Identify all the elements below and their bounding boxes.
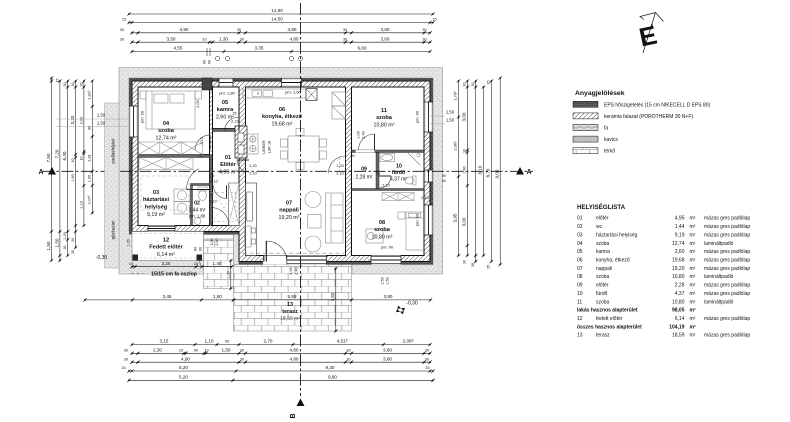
svg-text:11: 11 xyxy=(577,299,582,305)
sofa in living room xyxy=(326,193,344,243)
svg-text:09: 09 xyxy=(361,167,367,173)
svg-text:HELYISÉGLISTA: HELYISÉGLISTA xyxy=(577,203,626,211)
svg-text:pm: 1,80: pm: 1,80 xyxy=(219,91,235,96)
kitchen tall cabinets fridge xyxy=(332,92,346,119)
svg-text:kerámia falazat (POROTHERM 30: kerámia falazat (POROTHERM 30 N+F) xyxy=(604,114,693,120)
svg-text:19,20: 19,20 xyxy=(672,266,685,272)
gravel strip around building (kavics) xyxy=(119,68,443,275)
bottom dim row 5,20 9,60 xyxy=(127,375,434,383)
covered porch outline (fedett eloter) xyxy=(132,232,204,261)
svg-text:m²: m² xyxy=(690,291,696,297)
svg-text:75: 75 xyxy=(232,112,236,116)
LIEBER LSK 18 label xyxy=(262,140,272,154)
top dim row 14,80 xyxy=(127,8,434,16)
right dim col 5 xyxy=(486,79,494,269)
svg-text:30: 30 xyxy=(240,357,244,361)
svg-text:terasz: terasz xyxy=(282,309,298,315)
svg-text:3,45: 3,45 xyxy=(163,294,172,299)
bottom dim row rooms xyxy=(124,356,432,364)
svg-text:15: 15 xyxy=(122,18,126,22)
washing machines in room 03 xyxy=(174,189,190,214)
svg-text:30: 30 xyxy=(346,349,350,353)
svg-text:gázkazán: gázkazán xyxy=(111,220,116,239)
svg-text:térkő: térkő xyxy=(604,149,615,155)
right dim col 3 xyxy=(471,79,478,267)
svg-text:90: 90 xyxy=(442,174,446,178)
svg-text:30: 30 xyxy=(463,83,467,87)
svg-text:11: 11 xyxy=(381,108,387,114)
svg-text:fürdő: fürdő xyxy=(596,291,608,297)
right dim col 2 xyxy=(462,79,470,264)
svg-text:LSK 18: LSK 18 xyxy=(268,141,272,153)
svg-text:lamináltpadló: lamináltpadló xyxy=(704,241,734,247)
svg-text:60: 60 xyxy=(194,247,198,251)
svg-text:60: 60 xyxy=(208,60,212,64)
dining table with chairs xyxy=(281,129,327,170)
north arrow xyxy=(636,13,663,54)
top dim row rooms 4,90 4,80 3,60 xyxy=(120,27,432,35)
svg-text:9,19: 9,19 xyxy=(675,232,685,238)
svg-text:08: 08 xyxy=(379,220,385,226)
svg-text:pm: 1,60: pm: 1,60 xyxy=(285,90,301,95)
gazkazan label xyxy=(111,220,116,239)
svg-text:2,30: 2,30 xyxy=(153,348,162,353)
svg-text:mázas gres padlólap: mázas gres padlólap xyxy=(704,232,750,238)
svg-text:12: 12 xyxy=(163,238,169,244)
svg-text:1,00: 1,00 xyxy=(226,271,230,278)
svg-text:mázas gres padlólap: mázas gres padlólap xyxy=(704,316,750,322)
svg-text:18,59: 18,59 xyxy=(672,333,685,339)
svg-text:EPS hőszigetelés (15 cm NIKECE: EPS hőszigetelés (15 cm NIKECELL D EPS 8… xyxy=(604,102,711,108)
svg-text:30: 30 xyxy=(120,37,124,41)
svg-text:Előtér: Előtér xyxy=(220,162,237,168)
svg-text:m²: m² xyxy=(690,308,696,314)
svg-text:nappali: nappali xyxy=(596,266,612,272)
window W9 utility room in porch wall xyxy=(148,226,175,232)
svg-text:30: 30 xyxy=(71,238,75,242)
svg-text:15: 15 xyxy=(432,18,436,22)
wardrobe in room 08 xyxy=(382,193,414,201)
svg-text:1,26: 1,26 xyxy=(127,239,131,246)
svg-text:szoba: szoba xyxy=(596,241,610,247)
svg-text:3,35: 3,35 xyxy=(255,46,264,51)
legend swatch wood xyxy=(573,125,608,132)
legend swatch paving xyxy=(573,148,615,155)
svg-text:10: 10 xyxy=(79,157,83,161)
svg-text:30: 30 xyxy=(240,349,244,353)
room 07 nappali label xyxy=(279,201,300,222)
svg-text:A: A xyxy=(38,169,43,176)
svg-text:30: 30 xyxy=(237,28,241,32)
svg-text:6,60: 6,60 xyxy=(358,46,367,51)
svg-text:pm: 90: pm: 90 xyxy=(381,245,394,250)
partition wall above room 08 xyxy=(352,189,425,191)
svg-text:2,10: 2,10 xyxy=(231,120,238,124)
room 11 szoba label xyxy=(374,108,395,129)
svg-text:1,50: 1,50 xyxy=(54,238,59,247)
svg-text:2,40: 2,40 xyxy=(215,239,219,246)
svg-text:10,80 m²: 10,80 m² xyxy=(372,235,393,241)
bottom dim row 15 5,20 9,30 15 xyxy=(121,365,434,373)
right dim col 1 xyxy=(453,79,461,257)
svg-text:1,50: 1,50 xyxy=(386,277,390,284)
svg-text:10: 10 xyxy=(71,159,75,163)
svg-text:10: 10 xyxy=(199,154,203,158)
window W8 living room fixed glazing in bottom wall xyxy=(287,256,327,265)
svg-text:1,50: 1,50 xyxy=(222,348,231,353)
svg-text:12: 12 xyxy=(577,316,583,322)
svg-text:pm: 90: pm: 90 xyxy=(415,110,420,123)
svg-text:1,00: 1,00 xyxy=(357,131,361,138)
svg-text:09: 09 xyxy=(577,283,583,289)
svg-text:10,80: 10,80 xyxy=(672,274,685,280)
svg-text:A: A xyxy=(526,169,531,176)
svg-text:30: 30 xyxy=(63,246,67,250)
dashed opening jambs konyha xyxy=(239,158,346,171)
svg-text:1,50: 1,50 xyxy=(46,241,51,250)
porch timber column left 15/15 xyxy=(133,255,139,261)
svg-text:mázas gres padlólap: mázas gres padlólap xyxy=(704,216,750,222)
svg-text:2,00: 2,00 xyxy=(196,100,200,107)
window W2 kamra in top wall xyxy=(219,78,233,87)
svg-text:06: 06 xyxy=(279,107,285,113)
svg-text:3,20: 3,20 xyxy=(162,261,171,266)
svg-text:szoba: szoba xyxy=(158,128,175,134)
top dim row detailed xyxy=(120,36,432,44)
svg-text:1,10: 1,10 xyxy=(200,137,204,144)
window dim labels right 1,50 1,50 xyxy=(428,110,455,124)
exterior load-bearing walls (POROTHERM) xyxy=(132,81,430,262)
svg-text:4,55: 4,55 xyxy=(174,46,183,51)
right dim col 4 xyxy=(478,85,486,257)
svg-text:15: 15 xyxy=(487,81,491,85)
room 10 furdo label xyxy=(390,164,407,183)
bottom dim row 3,45 1,60 5,55 3,90 xyxy=(83,294,432,302)
svg-text:pm: 90: pm: 90 xyxy=(140,110,145,123)
svg-text:3,95: 3,95 xyxy=(453,213,458,222)
closet strip below room 04 xyxy=(139,158,193,170)
section line A-A xyxy=(42,170,533,172)
svg-text:30: 30 xyxy=(124,349,128,353)
svg-text:90: 90 xyxy=(350,154,354,158)
door wc xyxy=(213,186,226,199)
svg-text:1,60: 1,60 xyxy=(213,294,222,299)
svg-text:19,68 m²: 19,68 m² xyxy=(272,122,293,128)
svg-text:wc: wc xyxy=(596,224,603,230)
attic access dashed rectangle in hall xyxy=(212,193,236,222)
svg-text:6,14 m²: 6,14 m² xyxy=(157,252,175,258)
svg-text:háztartási: háztartási xyxy=(143,197,170,203)
svg-text:9,19 m²: 9,19 m² xyxy=(147,212,165,218)
entry dims 60 60 columns xyxy=(194,239,220,252)
svg-text:15: 15 xyxy=(194,262,198,266)
door room 11 xyxy=(359,134,375,150)
window dim labels left 1,50 1,50 xyxy=(56,113,129,127)
svg-text:13: 13 xyxy=(287,302,293,308)
svg-text:fedett előtér: fedett előtér xyxy=(596,316,623,322)
svg-text:Anyagjelölések: Anyagjelölések xyxy=(575,90,625,97)
bottom dim row porch 15 3,20 15 1,40 xyxy=(129,261,233,269)
svg-text:2,10: 2,10 xyxy=(382,184,389,188)
svg-text:2,60: 2,60 xyxy=(675,249,685,255)
svg-text:30: 30 xyxy=(120,28,124,32)
svg-text:10: 10 xyxy=(204,349,208,353)
svg-text:02: 02 xyxy=(194,201,200,207)
svg-text:10,80 m²: 10,80 m² xyxy=(374,123,395,129)
bottom dim row openings xyxy=(130,339,431,347)
svg-text:30: 30 xyxy=(63,83,67,87)
svg-text:07: 07 xyxy=(577,266,583,272)
room 09 eloter label xyxy=(356,167,373,181)
svg-text:4,95 m²: 4,95 m² xyxy=(219,170,237,176)
svg-text:mázas gres padlólap: mázas gres padlólap xyxy=(704,258,750,264)
svg-text:mázas gres padlólap: mázas gres padlólap xyxy=(704,249,750,255)
kitchen stove block xyxy=(306,89,317,101)
svg-text:15: 15 xyxy=(121,366,125,370)
hall closet and living-room wall unit xyxy=(229,183,257,256)
svg-text:19,20 m²: 19,20 m² xyxy=(279,215,300,221)
svg-text:1,20: 1,20 xyxy=(249,164,256,168)
svg-text:1,785: 1,785 xyxy=(453,91,458,101)
svg-text:10,80: 10,80 xyxy=(672,299,685,305)
svg-text:mázas gres padlólap: mázas gres padlólap xyxy=(704,266,750,272)
svg-text:lamináltpadló: lamináltpadló xyxy=(704,299,734,305)
svg-text:2,10: 2,10 xyxy=(421,196,428,200)
svg-text:60: 60 xyxy=(203,60,207,64)
svg-text:15: 15 xyxy=(487,265,491,269)
svg-text:30: 30 xyxy=(343,28,347,32)
room 05 kamra label xyxy=(216,100,234,121)
svg-text:3,15: 3,15 xyxy=(160,339,169,344)
svg-text:4,95: 4,95 xyxy=(675,216,685,222)
svg-text:30: 30 xyxy=(343,37,347,41)
svg-text:07: 07 xyxy=(286,201,292,207)
svg-text:3,00: 3,00 xyxy=(289,267,293,274)
door hall to utility room 03 xyxy=(187,169,211,190)
svg-text:2,40: 2,40 xyxy=(295,267,299,274)
svg-text:03: 03 xyxy=(153,190,159,196)
svg-text:1,40: 1,40 xyxy=(213,261,222,266)
svg-text:8,10: 8,10 xyxy=(478,165,483,174)
svg-text:30: 30 xyxy=(71,250,75,254)
svg-text:összes hasznos alapterület: összes hasznos alapterület xyxy=(577,324,642,330)
entrance door to hall xyxy=(211,208,229,226)
svg-text:75: 75 xyxy=(376,172,380,176)
svg-text:30: 30 xyxy=(471,83,475,87)
svg-text:2,70: 2,70 xyxy=(264,339,273,344)
svg-text:1,915: 1,915 xyxy=(87,90,92,100)
svg-text:4,37: 4,37 xyxy=(675,291,685,297)
svg-text:1,10: 1,10 xyxy=(79,201,83,208)
west side pad (attic stair strip) xyxy=(105,103,120,268)
svg-text:fa: fa xyxy=(604,126,608,132)
svg-text:12,74 m²: 12,74 m² xyxy=(156,136,177,142)
svg-text:2,81: 2,81 xyxy=(87,154,92,162)
svg-text:2,28 m²: 2,28 m² xyxy=(356,175,373,181)
svg-text:m²: m² xyxy=(690,274,696,280)
svg-text:mázas gres padlólap: mázas gres padlólap xyxy=(704,333,750,339)
window W3 kitchen in top wall xyxy=(282,78,302,87)
svg-text:5,20: 5,20 xyxy=(179,365,188,370)
door room 04 to hall xyxy=(195,135,210,150)
terrace paving (terko) xyxy=(234,265,352,332)
dashed attic outline in room 03 xyxy=(141,176,189,210)
svg-text:7,50: 7,50 xyxy=(46,153,51,162)
svg-text:m²: m² xyxy=(690,266,696,272)
bed in room 04 xyxy=(140,91,202,129)
room 13 terasz label xyxy=(280,302,300,322)
svg-text:szoba: szoba xyxy=(376,115,393,121)
svg-text:3,60: 3,60 xyxy=(381,36,390,41)
svg-text:10: 10 xyxy=(202,37,206,41)
svg-text:30: 30 xyxy=(425,357,429,361)
svg-text:10: 10 xyxy=(577,291,583,297)
svg-text:m²: m² xyxy=(690,249,696,255)
svg-text:lamináltpadló: lamináltpadló xyxy=(704,274,734,280)
svg-text:2,965: 2,965 xyxy=(453,141,458,151)
svg-text:E: E xyxy=(636,20,659,53)
svg-text:05: 05 xyxy=(222,100,228,106)
EPS insulation layer around walls xyxy=(129,78,433,265)
section marker A right xyxy=(516,167,532,176)
svg-text:Fedett előtér: Fedett előtér xyxy=(149,245,183,251)
svg-text:30: 30 xyxy=(422,37,426,41)
left dim col 2 xyxy=(54,79,61,263)
room 01 eloter label xyxy=(219,155,237,176)
legend swatch gravel xyxy=(573,136,618,143)
washbasin in bathroom 10 xyxy=(380,154,395,162)
svg-text:104,19: 104,19 xyxy=(669,324,685,330)
svg-text:pm: 1,80: pm: 1,80 xyxy=(189,214,206,219)
window W6 room 08 in right wall xyxy=(424,205,433,235)
svg-text:01: 01 xyxy=(577,216,583,222)
svg-text:szoba: szoba xyxy=(596,274,610,280)
svg-text:1,44: 1,44 xyxy=(675,224,685,230)
window W7 room 08 in bottom wall xyxy=(371,256,401,265)
svg-text:4,80: 4,80 xyxy=(290,348,299,353)
svg-text:1,20: 1,20 xyxy=(336,164,343,168)
svg-text:szoba: szoba xyxy=(374,227,391,233)
door size labels interior xyxy=(196,100,429,284)
svg-text:5,20: 5,20 xyxy=(179,375,188,380)
svg-text:30: 30 xyxy=(79,83,83,87)
svg-text:3,00: 3,00 xyxy=(462,217,467,226)
partition wall kamra south xyxy=(213,129,240,132)
armchairs and coffee table in living room xyxy=(305,192,321,253)
svg-text:konyha, étkező: konyha, étkező xyxy=(596,258,630,264)
svg-text:fürdő: fürdő xyxy=(392,170,405,176)
svg-text:9,30: 9,30 xyxy=(326,365,335,370)
svg-text:75: 75 xyxy=(209,194,213,198)
wc toilet and basin xyxy=(194,187,207,224)
pm labels windows xyxy=(140,90,420,250)
svg-text:m²: m² xyxy=(690,216,696,222)
svg-text:konyha, étkező: konyha, étkező xyxy=(262,114,303,120)
svg-text:10: 10 xyxy=(463,149,467,153)
door hall 09 to living room xyxy=(329,156,346,173)
porch timber column right 15/15 xyxy=(197,255,203,261)
svg-text:3,50: 3,50 xyxy=(167,36,176,41)
svg-text:2,475: 2,475 xyxy=(87,195,92,205)
svg-text:mázas gres padlólap: mázas gres padlólap xyxy=(704,224,750,230)
svg-text:7,20: 7,20 xyxy=(54,149,59,158)
svg-text:12,74: 12,74 xyxy=(672,241,685,247)
svg-text:-0,30: -0,30 xyxy=(406,301,418,307)
svg-text:mázas gres padlólap: mázas gres padlólap xyxy=(704,291,750,297)
svg-text:95: 95 xyxy=(225,340,229,344)
partition wall between room 04 and closet strip xyxy=(138,155,210,158)
svg-text:háztartási helyiség: háztartási helyiség xyxy=(596,232,638,238)
legend swatch EPS xyxy=(573,101,711,108)
svg-text:9,00: 9,00 xyxy=(494,169,499,178)
svg-text:6,14: 6,14 xyxy=(675,316,685,322)
svg-text:3,00: 3,00 xyxy=(462,112,467,121)
svg-text:2,10: 2,10 xyxy=(209,200,216,204)
svg-text:06: 06 xyxy=(577,258,583,264)
svg-text:nappali: nappali xyxy=(279,208,299,214)
svg-text:4,90: 4,90 xyxy=(181,356,190,361)
svg-text:98,05: 98,05 xyxy=(672,308,685,314)
svg-text:B: B xyxy=(290,413,297,418)
svg-text:1,50: 1,50 xyxy=(446,118,455,123)
left dim col 3 xyxy=(62,79,69,257)
svg-text:m²: m² xyxy=(690,299,696,305)
svg-text:előtér: előtér xyxy=(596,216,609,222)
padlasfeljaro label xyxy=(111,138,116,163)
svg-text:08: 08 xyxy=(577,274,583,280)
svg-text:1,50: 1,50 xyxy=(381,277,385,284)
column size labels 60 60 xyxy=(203,60,212,64)
svg-text:szoba: szoba xyxy=(596,299,610,305)
svg-text:2,10: 2,10 xyxy=(336,172,343,176)
top dim row 14,50 xyxy=(122,17,437,25)
svg-text:4,90: 4,90 xyxy=(180,27,189,32)
svg-text:padlásfeljáró: padlásfeljáró xyxy=(111,138,116,163)
svg-text:60: 60 xyxy=(199,247,203,251)
svg-text:mázas gres padlólap: mázas gres padlólap xyxy=(704,283,750,289)
svg-text:15: 15 xyxy=(129,262,133,266)
left dim col 1 xyxy=(46,76,53,262)
room list title HELYISEGLISTA xyxy=(577,203,626,211)
kitchen counter with sink xyxy=(243,89,306,98)
room 06 konyha label xyxy=(262,107,303,128)
svg-text:2,10: 2,10 xyxy=(249,172,256,176)
left dim col 4 xyxy=(70,79,77,254)
partition wall 11 to 09-10 xyxy=(352,150,425,153)
svg-text:előtér: előtér xyxy=(596,283,609,289)
window W5 bathroom in right wall xyxy=(424,170,433,182)
partition wall left of hall xyxy=(210,155,212,226)
tv board in living room xyxy=(245,226,252,247)
svg-text:4,80: 4,80 xyxy=(290,356,299,361)
hall side cabinet with symbols xyxy=(248,134,259,154)
terrace depth dim 3,50 xyxy=(330,267,338,333)
svg-text:m²: m² xyxy=(690,224,696,230)
door kamra xyxy=(225,117,240,132)
svg-text:2,28: 2,28 xyxy=(675,283,685,289)
svg-text:19,68: 19,68 xyxy=(672,258,685,264)
svg-text:3,20: 3,20 xyxy=(70,115,75,124)
window W4 room 11 in right wall xyxy=(424,102,433,132)
svg-text:m²: m² xyxy=(690,316,696,322)
legend swatch wall xyxy=(573,113,693,120)
svg-text:3,60: 3,60 xyxy=(383,348,392,353)
room 02 wc label xyxy=(189,201,206,219)
svg-text:kamra: kamra xyxy=(596,249,610,255)
60x60 column in top wall xyxy=(202,78,212,90)
svg-text:14,80: 14,80 xyxy=(271,8,283,13)
section marker A left xyxy=(38,167,56,176)
